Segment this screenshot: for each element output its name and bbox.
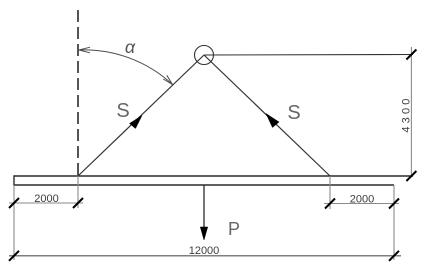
extension line left end of beam [13,185,15,260]
dimension line 4300 vertical [410,47,412,176]
beam bottom line [14,184,394,186]
svg-text:S: S [116,100,129,122]
svg-text:α: α [125,37,136,57]
tick [389,199,399,209]
tick [325,199,335,209]
left S force arrowhead [130,116,143,129]
tick [9,251,19,261]
svg-text:12000: 12000 [189,245,220,257]
left cable S [78,55,204,176]
right cable S [204,55,330,176]
arc arrowhead left [79,47,90,53]
arc arrowhead right [163,75,172,84]
force P line [203,185,205,229]
beam left end cap [13,175,15,185]
tick [389,251,399,261]
dimension line 2000 right [324,203,399,205]
dimension line 12000 [9,255,401,257]
extension line at right cable anchor [329,176,331,209]
dimension line 2000 left [9,202,83,204]
pulley circle [195,46,214,65]
svg-text:2000: 2000 [350,194,374,206]
svg-text:S: S [287,102,300,124]
tick [9,198,19,208]
top extension line from pulley [204,54,413,57]
svg-text:2000: 2000 [34,193,58,205]
beam top line [14,175,413,177]
tick [406,171,416,181]
extension line at left cable anchor [77,176,79,208]
tick [73,198,83,208]
right S force arrowhead [266,114,279,128]
force P arrowhead [200,227,207,240]
svg-text:P: P [228,219,240,239]
angle arc alpha [79,50,173,85]
svg-text:4300: 4300 [401,95,413,132]
tick [406,50,416,60]
extension line right end of beam [393,185,395,260]
vertical reference axis (dashed) [77,10,79,176]
